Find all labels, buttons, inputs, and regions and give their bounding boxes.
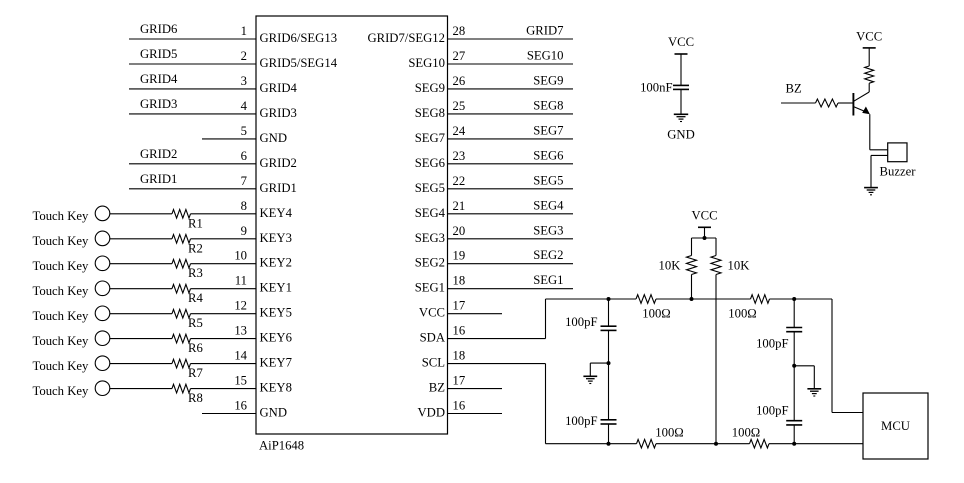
svg-text:SEG1: SEG1 <box>415 281 445 295</box>
wire left cap branch c <box>608 363 610 420</box>
wire right cap branch b <box>793 332 795 366</box>
svg-text:100Ω: 100Ω <box>732 426 760 440</box>
pin number 16 <box>234 399 247 413</box>
svg-text:SEG6: SEG6 <box>533 148 563 162</box>
wire top bus segment c <box>770 298 833 300</box>
wire 10K right drop <box>715 238 717 256</box>
wire left pin 6 <box>129 163 256 165</box>
label 10K (R14) <box>728 259 751 273</box>
svg-text:12: 12 <box>234 299 247 313</box>
wire right cap branch a <box>793 299 795 328</box>
label 100pF (C4) <box>756 337 788 351</box>
svg-text:100nF: 100nF <box>640 81 672 95</box>
wire C1 to ground <box>680 89 682 114</box>
pin number 2 <box>241 49 247 63</box>
IC pin name GRID4 <box>260 81 298 95</box>
node top cap junction <box>792 297 796 301</box>
svg-text:20: 20 <box>453 224 466 238</box>
wire right row 3 (SEG9) <box>448 88 574 90</box>
wire left pin 15 <box>110 388 172 390</box>
svg-text:16: 16 <box>453 324 466 338</box>
svg-text:GRID4: GRID4 <box>140 72 178 86</box>
capacitor C5 100pF <box>786 421 802 425</box>
IC pin name SEG9 <box>415 81 445 95</box>
svg-text:24: 24 <box>453 124 466 138</box>
IC pin name SEG3 <box>415 231 445 245</box>
label 100nF <box>640 81 672 95</box>
svg-text:SEG2: SEG2 <box>533 248 563 262</box>
pin number 18 (right row 14) <box>453 349 466 363</box>
wire right row 8 (SEG4) <box>448 213 574 215</box>
svg-text:GRID6/SEG13: GRID6/SEG13 <box>260 31 338 45</box>
label BZ <box>786 82 802 96</box>
svg-text:GRID2: GRID2 <box>140 147 177 161</box>
svg-text:19: 19 <box>453 249 466 263</box>
svg-text:2: 2 <box>241 49 247 63</box>
IC pin name KEY7 <box>260 356 292 370</box>
IC pin name KEY4 <box>260 206 293 220</box>
wire 10K left to bus <box>691 275 693 300</box>
label R1 <box>188 216 203 230</box>
pin number 16 (right row 16) <box>453 399 466 413</box>
svg-text:R3: R3 <box>188 266 203 280</box>
pin number 21 (right row 8) <box>453 199 466 213</box>
svg-text:100pF: 100pF <box>565 414 597 428</box>
svg-text:Touch Key: Touch Key <box>33 359 89 373</box>
resistor R16 100R <box>750 439 770 448</box>
wire right row 15 (BZ) <box>448 388 503 390</box>
net label GRID1 <box>140 172 177 186</box>
label 100pF (C5) <box>756 404 788 418</box>
svg-text:SEG5: SEG5 <box>533 173 563 187</box>
resistor R7 <box>172 359 256 368</box>
svg-text:SEG9: SEG9 <box>415 81 445 95</box>
wire left pin 10 <box>110 263 172 265</box>
resistor R12 100R <box>751 295 770 304</box>
net label GRID6 <box>140 22 177 36</box>
label 100pF (C3) <box>565 414 597 428</box>
pin number 6 <box>241 149 247 163</box>
wire to right ground <box>794 366 814 389</box>
touch key pad circle 2 <box>95 231 110 246</box>
svg-text:3: 3 <box>241 74 247 88</box>
resistor R6 <box>172 334 256 343</box>
capacitor C4 100pF <box>786 328 802 332</box>
wire left pin 7 <box>129 188 256 190</box>
svg-text:GND: GND <box>667 128 695 142</box>
svg-text:GND: GND <box>260 406 288 420</box>
wire left cap branch a <box>608 299 610 326</box>
pin number 13 <box>234 324 247 338</box>
label MCU <box>881 419 910 433</box>
net label SEG6 <box>533 148 563 162</box>
svg-text:GND: GND <box>260 131 288 145</box>
svg-text:GRID3: GRID3 <box>260 106 297 120</box>
wire SDA riser <box>545 299 547 339</box>
IC pin name SEG6 <box>415 156 445 170</box>
net label SEG9 <box>533 73 563 87</box>
svg-text:KEY5: KEY5 <box>260 306 292 320</box>
wire buzzer pin2 <box>871 155 888 187</box>
svg-text:22: 22 <box>453 174 466 188</box>
svg-text:VCC: VCC <box>856 30 882 44</box>
wire left pin 4 <box>129 113 256 115</box>
svg-text:KEY7: KEY7 <box>260 356 292 370</box>
svg-text:SEG4: SEG4 <box>415 206 446 220</box>
net label SEG10 <box>527 49 564 63</box>
IC pin name BZ <box>429 381 445 395</box>
net label SEG8 <box>533 98 563 112</box>
net label GRID3 <box>140 97 177 111</box>
touch key pad circle 3 <box>95 256 110 271</box>
net label GRID7 <box>526 24 563 38</box>
pin number 7 <box>241 174 247 188</box>
svg-text:SEG8: SEG8 <box>415 106 445 120</box>
svg-text:Touch Key: Touch Key <box>33 209 89 223</box>
wire VCC stem <box>704 227 706 238</box>
label 100R (R16) <box>732 426 760 440</box>
label R8 <box>188 391 203 405</box>
IC pin name SEG10 <box>408 56 445 70</box>
svg-text:26: 26 <box>453 74 466 88</box>
svg-text:Touch Key: Touch Key <box>33 384 89 398</box>
label GND <box>667 128 695 142</box>
IC pin name SEG7 <box>415 131 445 145</box>
svg-text:17: 17 <box>453 299 466 313</box>
svg-text:VDD: VDD <box>418 406 446 420</box>
pin number 4 <box>241 99 248 113</box>
svg-text:BZ: BZ <box>429 381 445 395</box>
label 100R (R11) <box>642 307 670 321</box>
svg-text:R1: R1 <box>188 216 203 230</box>
svg-text:KEY6: KEY6 <box>260 331 292 345</box>
IC pin name SEG2 <box>415 256 445 270</box>
svg-text:10K: 10K <box>728 259 751 273</box>
ground (buzzer) <box>864 188 878 195</box>
svg-text:SEG3: SEG3 <box>533 223 563 237</box>
pin number 17 (right row 12) <box>453 299 466 313</box>
svg-text:GRID5: GRID5 <box>140 47 177 61</box>
pin number 25 (right row 4) <box>453 99 466 113</box>
svg-text:GRID6: GRID6 <box>140 22 177 36</box>
net label SEG3 <box>533 223 563 237</box>
resistor R1 <box>172 210 256 219</box>
svg-text:13: 13 <box>234 324 247 338</box>
IC pin name SDA <box>420 331 446 345</box>
touch key label row 6 <box>33 334 89 348</box>
pin number 28 (right row 1) <box>453 24 466 38</box>
node right cap bottom junction <box>792 442 796 446</box>
wire top bus segment a <box>546 298 637 300</box>
power symbol VCC (pull-ups) <box>691 209 717 228</box>
wire right row 5 (SEG7) <box>448 138 574 140</box>
wire left pin 9 <box>110 238 172 240</box>
svg-text:GRID5/SEG14: GRID5/SEG14 <box>260 56 338 70</box>
IC pin name GND <box>260 131 288 145</box>
pin number 26 (right row 3) <box>453 74 466 88</box>
wire right row 14 (SCL) <box>448 363 546 365</box>
svg-text:Buzzer: Buzzer <box>880 165 917 179</box>
resistor R13 10K <box>687 256 697 275</box>
wire right row 10 (SEG2) <box>448 263 574 265</box>
touch key label row 2 <box>33 234 89 248</box>
svg-text:100Ω: 100Ω <box>655 426 683 440</box>
svg-text:Touch Key: Touch Key <box>33 234 89 248</box>
wire bottom bus segment b <box>656 443 750 445</box>
wire right row 12 (VCC) <box>448 313 503 315</box>
svg-text:AiP1648: AiP1648 <box>259 439 304 453</box>
wire left cap branch d <box>608 424 610 444</box>
label 10K (R13) <box>659 259 682 273</box>
svg-text:BZ: BZ <box>786 82 802 96</box>
svg-text:R5: R5 <box>188 316 203 330</box>
IC pin name VDD <box>418 406 446 420</box>
svg-text:7: 7 <box>241 174 247 188</box>
svg-text:100Ω: 100Ω <box>642 307 670 321</box>
svg-text:VCC: VCC <box>691 209 717 223</box>
svg-text:SEG8: SEG8 <box>533 98 563 112</box>
wire left pin 16 <box>202 413 256 415</box>
svg-text:SEG2: SEG2 <box>415 256 445 270</box>
wire right row 16 (VDD) <box>448 413 503 415</box>
touch key label row 8 <box>33 384 89 398</box>
IC pin name VCC <box>419 306 445 320</box>
power symbol VCC (decoupling) <box>668 35 694 54</box>
resistor R15 100R <box>637 439 657 448</box>
svg-text:R6: R6 <box>188 341 203 355</box>
touch key pad circle 5 <box>95 306 110 321</box>
touch key pad circle 6 <box>95 331 110 346</box>
svg-text:KEY3: KEY3 <box>260 231 292 245</box>
pin number 1 <box>241 24 247 38</box>
net label GRID5 <box>140 47 177 61</box>
IC pin name SEG1 <box>415 281 445 295</box>
svg-text:VCC: VCC <box>668 35 694 49</box>
IC pin name KEY1 <box>260 281 292 295</box>
node 10K right bottom junction <box>714 442 718 446</box>
svg-text:KEY4: KEY4 <box>260 206 293 220</box>
IC pin name SEG4 <box>415 206 446 220</box>
label R4 <box>188 291 203 305</box>
IC U1 part number label AiP1648 <box>259 439 304 453</box>
net label SEG1 <box>533 273 563 287</box>
pin number 14 <box>234 349 247 363</box>
resistor R10 (base) <box>816 99 854 107</box>
IC pin name KEY6 <box>260 331 292 345</box>
label R7 <box>188 366 203 380</box>
ground (right RC) <box>807 389 821 396</box>
svg-text:SEG1: SEG1 <box>533 273 563 287</box>
touch key label row 3 <box>33 259 89 273</box>
touch key label row 1 <box>33 209 89 223</box>
buzzer LS1 body <box>888 143 907 162</box>
svg-text:9: 9 <box>241 224 247 238</box>
wire right cap branch d <box>793 425 795 444</box>
resistor R8 <box>172 384 256 393</box>
svg-text:SEG7: SEG7 <box>533 123 563 137</box>
svg-text:SEG3: SEG3 <box>415 231 445 245</box>
svg-text:100pF: 100pF <box>565 315 597 329</box>
IC pin name SEG5 <box>415 181 445 195</box>
power symbol VCC (buzzer) <box>856 30 882 48</box>
wire VCC to R9 <box>868 48 870 66</box>
resistor R11 100R <box>636 295 656 304</box>
svg-text:1: 1 <box>241 24 247 38</box>
net label SEG4 <box>533 198 564 212</box>
pin number 23 (right row 6) <box>453 149 466 163</box>
pin number 20 (right row 9) <box>453 224 466 238</box>
wire 10K left drop <box>691 238 693 256</box>
IC U1 AiP1648 body <box>256 16 448 434</box>
pin number 3 <box>241 74 247 88</box>
label 100R (R12) <box>728 307 756 321</box>
resistor R4 <box>172 284 256 293</box>
pin number 18 (right row 11) <box>453 274 466 288</box>
IC pin name GRID6/SEG13 <box>260 31 338 45</box>
svg-text:R4: R4 <box>188 291 203 305</box>
wire bottom bus segment c <box>769 443 863 445</box>
resistor R3 <box>172 259 256 268</box>
pin number 15 <box>234 374 247 388</box>
pin number 27 (right row 2) <box>453 49 466 63</box>
svg-text:11: 11 <box>235 274 247 288</box>
svg-text:R7: R7 <box>188 366 203 380</box>
svg-text:SEG10: SEG10 <box>527 49 564 63</box>
svg-text:SEG7: SEG7 <box>415 131 445 145</box>
svg-text:Touch Key: Touch Key <box>33 309 89 323</box>
svg-text:GRID2: GRID2 <box>260 156 297 170</box>
label R2 <box>188 241 203 255</box>
touch key pad circle 4 <box>95 281 110 296</box>
pin number 8 <box>241 199 247 213</box>
wire top bus segment b <box>656 298 751 300</box>
ground (left RC) <box>583 376 597 383</box>
node left cap top junction <box>607 297 611 301</box>
svg-text:4: 4 <box>241 99 248 113</box>
wire VCC to C1 <box>680 54 682 85</box>
label R5 <box>188 316 203 330</box>
svg-text:GRID3: GRID3 <box>140 97 177 111</box>
IC pin name KEY3 <box>260 231 292 245</box>
touch key label row 5 <box>33 309 89 323</box>
svg-text:10K: 10K <box>659 259 682 273</box>
IC pin name KEY5 <box>260 306 292 320</box>
IC pin name KEY2 <box>260 256 292 270</box>
svg-text:21: 21 <box>453 199 466 213</box>
wire left pin 1 <box>129 38 256 40</box>
touch key pad circle 7 <box>95 356 110 371</box>
wire left pin 12 <box>110 313 172 315</box>
svg-text:VCC: VCC <box>419 306 445 320</box>
svg-text:GRID1: GRID1 <box>140 172 177 186</box>
touch key pad circle 1 <box>95 206 110 221</box>
touch key label row 4 <box>33 284 89 298</box>
svg-text:GRID7/SEG12: GRID7/SEG12 <box>367 31 445 45</box>
ground (decoupling) <box>674 114 688 121</box>
wire right row 4 (SEG8) <box>448 113 574 115</box>
pin number 9 <box>241 224 247 238</box>
svg-text:28: 28 <box>453 24 466 38</box>
wire left pin 8 <box>110 213 172 215</box>
svg-text:100pF: 100pF <box>756 337 788 351</box>
svg-text:SEG9: SEG9 <box>533 73 563 87</box>
node top-left 10K junction <box>690 297 694 301</box>
svg-text:GRID7: GRID7 <box>526 24 563 38</box>
MCU U2 body <box>863 393 928 459</box>
wire left pin 11 <box>110 288 172 290</box>
wire SCL dropper <box>545 364 547 444</box>
wire left pin 3 <box>129 88 256 90</box>
node right ground junction <box>792 364 796 368</box>
net label GRID4 <box>140 72 178 86</box>
wire bottom bus segment a <box>546 443 637 445</box>
wire right row 6 (SEG6) <box>448 163 574 165</box>
touch key label row 7 <box>33 359 89 373</box>
svg-text:100Ω: 100Ω <box>728 307 756 321</box>
svg-text:16: 16 <box>453 399 466 413</box>
wire right row 7 (SEG5) <box>448 188 574 190</box>
resistor R14 10K <box>711 256 721 275</box>
svg-text:SDA: SDA <box>420 331 446 345</box>
wire right row 2 (SEG10) <box>448 63 574 65</box>
svg-text:Touch Key: Touch Key <box>33 259 89 273</box>
net label GRID2 <box>140 147 177 161</box>
IC pin name GRID1 <box>260 181 297 195</box>
label R6 <box>188 341 203 355</box>
wire left pin 5 <box>202 138 256 140</box>
capacitor C2 100pF <box>601 326 617 330</box>
wire bus to MCU upper <box>832 299 863 413</box>
svg-text:KEY1: KEY1 <box>260 281 292 295</box>
net label SEG2 <box>533 248 563 262</box>
svg-text:SEG10: SEG10 <box>408 56 445 70</box>
pin number 12 <box>234 299 247 313</box>
pin number 10 <box>234 249 247 263</box>
svg-text:KEY8: KEY8 <box>260 381 292 395</box>
svg-text:14: 14 <box>234 349 247 363</box>
svg-text:Touch Key: Touch Key <box>33 284 89 298</box>
capacitor C1 100nF <box>673 85 689 89</box>
wire 10K top bar <box>692 237 717 239</box>
IC pin name GRID5/SEG14 <box>260 56 338 70</box>
wire left pin 13 <box>110 338 172 340</box>
pin number 5 <box>241 124 247 138</box>
svg-text:R8: R8 <box>188 391 203 405</box>
IC pin name GRID7/SEG12 <box>367 31 445 45</box>
svg-text:8: 8 <box>241 199 247 213</box>
svg-text:SEG4: SEG4 <box>533 198 564 212</box>
IC pin name GRID3 <box>260 106 297 120</box>
wire emitter down <box>869 114 871 150</box>
svg-text:GRID1: GRID1 <box>260 181 297 195</box>
node VCC junction <box>703 236 707 240</box>
pin number 16 (right row 13) <box>453 324 466 338</box>
IC pin name GRID2 <box>260 156 297 170</box>
label 100R (R15) <box>655 426 683 440</box>
svg-text:10: 10 <box>234 249 247 263</box>
capacitor C3 100pF <box>601 420 617 424</box>
svg-text:15: 15 <box>234 374 247 388</box>
wire right row 1 (GRID7/SEG12) <box>448 38 574 40</box>
svg-text:SEG6: SEG6 <box>415 156 445 170</box>
svg-text:Touch Key: Touch Key <box>33 334 89 348</box>
svg-text:6: 6 <box>241 149 247 163</box>
svg-text:SCL: SCL <box>422 356 445 370</box>
svg-text:27: 27 <box>453 49 466 63</box>
wire right row 9 (SEG3) <box>448 238 574 240</box>
wire left pin 2 <box>129 63 256 65</box>
pin number 22 (right row 7) <box>453 174 466 188</box>
